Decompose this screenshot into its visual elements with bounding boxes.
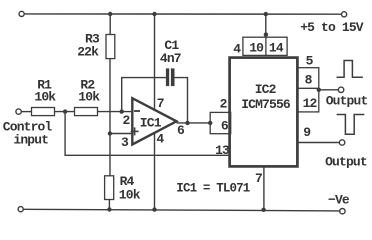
resistor R3 xyxy=(106,35,115,59)
wire: IC1 pin 7 supply xyxy=(154,14,156,110)
op-amp IC1 xyxy=(132,98,176,144)
terminal: +V left xyxy=(19,11,24,16)
wire: IC2 pin 7 to -Ve rail xyxy=(263,166,265,209)
terminal: control input xyxy=(16,109,21,114)
terminal: +V right xyxy=(342,12,347,17)
svg-text:IC1 = TL071: IC1 = TL071 xyxy=(176,182,250,196)
svg-text:3: 3 xyxy=(121,135,129,150)
node: supply at pin box xyxy=(264,32,268,36)
node: pins 5/8/12 output junction xyxy=(317,88,321,92)
svg-text:14: 14 xyxy=(269,40,284,55)
wire: rail to R3 xyxy=(109,14,111,35)
terminal: output 2 xyxy=(339,140,344,145)
svg-text:5: 5 xyxy=(306,53,314,68)
terminal: -Ve left xyxy=(18,207,23,212)
wire: IC1 output pin 6 xyxy=(177,122,211,124)
svg-text:ICM7556: ICM7556 xyxy=(241,97,291,112)
divider 8/12 xyxy=(297,87,318,89)
resistor R2 xyxy=(75,108,98,116)
non-inverting input plus marker xyxy=(131,130,139,132)
node: R3/R4 to non-inverting input xyxy=(108,131,112,135)
wire: input to R1 xyxy=(21,111,31,113)
svg-text:7: 7 xyxy=(255,171,262,186)
IC2 body ICM7556 xyxy=(230,58,298,167)
wire: to output 1 terminal xyxy=(319,89,339,91)
svg-text:+5 to 15V: +5 to 15V xyxy=(300,20,364,35)
wire: IC2 pin 9 to output 2 xyxy=(297,142,339,144)
svg-text:2: 2 xyxy=(123,113,131,128)
svg-text:6: 6 xyxy=(177,123,185,138)
node: output-C1 junction xyxy=(185,121,189,125)
node: rail-IC1 pin4 junction xyxy=(152,207,156,211)
svg-text:IC1: IC1 xyxy=(140,116,162,131)
svg-text:10k: 10k xyxy=(34,89,56,104)
wire: R4 to -Ve rail xyxy=(108,200,110,210)
node: inverting input / C1 junction xyxy=(120,109,124,113)
svg-text:13: 13 xyxy=(215,143,230,158)
node: R1-R2-feedback junction xyxy=(63,109,67,113)
svg-text:4: 4 xyxy=(233,41,241,56)
node: rail-IC1 pin7 junction xyxy=(152,12,156,16)
terminal: -Ve right xyxy=(340,209,345,214)
svg-text:10k: 10k xyxy=(78,89,100,104)
wire: R1 to R2 xyxy=(55,111,75,113)
node: R4-rail junction xyxy=(107,207,111,211)
IC2 pin 2+6 box xyxy=(210,112,231,133)
resistor R1 xyxy=(32,108,55,116)
wire: non-inverting input xyxy=(110,133,132,135)
svg-text:input: input xyxy=(13,133,48,148)
capacitor C1 plates xyxy=(166,68,169,86)
svg-text:4: 4 xyxy=(156,132,164,147)
svg-text:10k: 10k xyxy=(119,187,141,202)
svg-text:Output: Output xyxy=(326,94,368,109)
svg-text:9: 9 xyxy=(303,125,311,140)
resistor R4 xyxy=(105,176,114,200)
wire: IC2 supply to pins 10/14 xyxy=(265,14,267,37)
wire: -Ve rail xyxy=(23,209,339,211)
svg-text:IC2: IC2 xyxy=(255,82,277,97)
svg-text:6: 6 xyxy=(221,119,229,134)
svg-text:10: 10 xyxy=(249,40,264,55)
inverting input minus marker xyxy=(134,110,140,112)
node: rail-IC2 supply junction xyxy=(264,12,268,16)
svg-text:8: 8 xyxy=(305,73,313,88)
IC2 right pin box 8|12 xyxy=(297,68,318,112)
terminal: output 1 xyxy=(338,87,343,92)
node: rail-R3 junction xyxy=(108,12,112,16)
divider 10/14 xyxy=(265,37,267,55)
wire: +V supply rail xyxy=(24,13,341,15)
svg-text:7: 7 xyxy=(157,96,164,111)
wire: R3 to R4 vertical xyxy=(109,59,111,176)
svg-text:12: 12 xyxy=(303,96,318,111)
node: rail-IC2 pin7 junction xyxy=(261,208,265,212)
node: output to IC2 pin box junction xyxy=(208,121,212,125)
svg-text:Output: Output xyxy=(325,155,367,170)
wire: IC1 pin 4 to -Ve xyxy=(154,133,156,210)
IC2 top pin box 10|14 xyxy=(243,37,287,55)
svg-text:−Ve: −Ve xyxy=(328,193,350,208)
wire: C1 right lead xyxy=(175,78,188,123)
svg-text:2: 2 xyxy=(220,97,228,112)
wire: C1 left lead xyxy=(122,78,166,112)
wire: feedback R1/R2 junction to IC2 pin 13 xyxy=(65,112,230,156)
waveform: negative pulse xyxy=(337,115,365,135)
svg-text:4n7: 4n7 xyxy=(160,51,181,66)
svg-text:22k: 22k xyxy=(77,45,99,60)
wire: R2 to inverting input xyxy=(98,111,133,113)
waveform: positive pulse xyxy=(337,61,363,78)
